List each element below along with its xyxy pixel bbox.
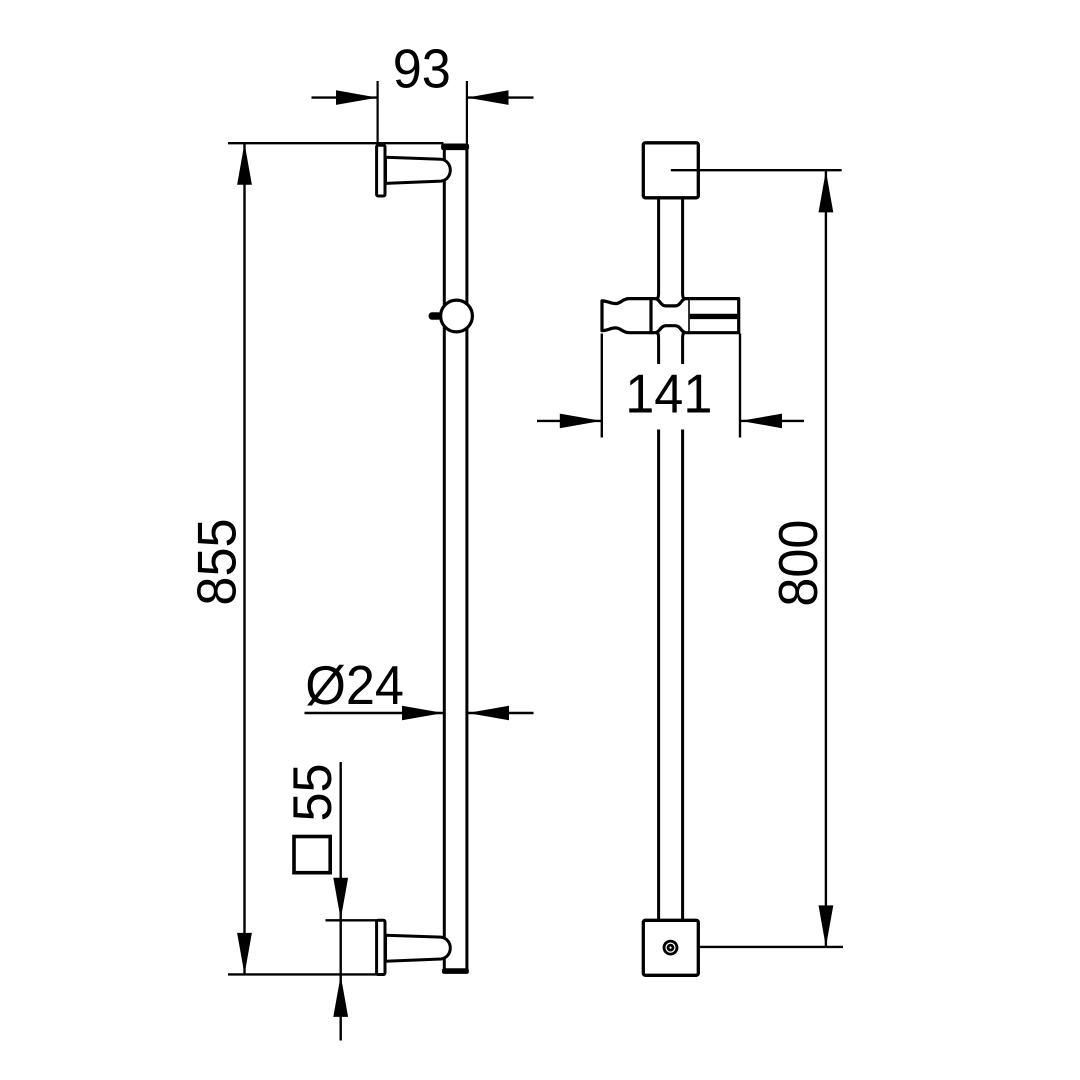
dimension 93 arrow left (336, 90, 378, 105)
screw dot (669, 947, 671, 949)
dimension 141 arrow right (741, 414, 783, 429)
dimension 141 extension left (601, 334, 603, 438)
dimension 855 arrow up (237, 143, 252, 185)
handle divider left (649, 297, 652, 334)
rail upper segment (656, 198, 685, 299)
dimension 93 line (312, 96, 534, 98)
handle center section (651, 299, 690, 333)
dimension 55 line (340, 762, 342, 1041)
escutcheon square bottom (643, 920, 698, 975)
dimension O24 line left (305, 712, 444, 714)
dimension 800 extension top (671, 169, 842, 171)
screw ring (666, 943, 675, 952)
dimension square symbol (294, 837, 330, 873)
dimension 855 extension bottom (228, 973, 385, 975)
handle divider right (688, 297, 691, 334)
bar left line (443, 146, 446, 971)
dimension 800 extension bottom (678, 946, 843, 948)
dimension 55 arrow up (333, 975, 348, 1017)
dimension 800 arrow up (819, 171, 834, 213)
screw head (663, 940, 679, 956)
wall plate bottom (377, 920, 385, 974)
dimension 141 extension right (739, 334, 741, 438)
svg-text:141: 141 (625, 363, 712, 425)
svg-text:55: 55 (282, 763, 344, 821)
handle right holder (690, 299, 739, 333)
handle slot (690, 314, 739, 319)
dimension 55 arrow down (333, 878, 348, 920)
dimension 855 extension top (228, 142, 444, 144)
rail below handle segment (656, 333, 685, 364)
escutcheon square top (643, 143, 698, 198)
top arm cone (386, 157, 451, 183)
dimension O24 arrow left (402, 706, 444, 721)
dimension O24 arrow right (468, 706, 510, 721)
svg-text:855: 855 (186, 518, 248, 605)
dimension 855 line (243, 144, 245, 974)
svg-text:800: 800 (768, 520, 830, 607)
dimension 141 arrow left (560, 414, 602, 429)
dimension O24 line right (468, 712, 534, 714)
dimension 141 line left (537, 420, 601, 422)
bottom arm cone (386, 935, 451, 961)
rail lower segment (659, 430, 683, 921)
svg-text:Ø24: Ø24 (305, 655, 404, 717)
dimension 855 arrow down (237, 933, 252, 975)
handle left grip (602, 299, 651, 333)
svg-text:93: 93 (393, 38, 451, 100)
dimension 800 line (825, 171, 827, 947)
bar bottom cap (442, 968, 469, 974)
dimension 141 line right (741, 420, 804, 422)
bar right line (465, 146, 468, 971)
dimension 93 extension lines (378, 81, 467, 146)
wall plate top (377, 145, 385, 196)
bar top cap (441, 144, 469, 151)
dimension 800 arrow down (819, 905, 834, 947)
dimension 93 arrow right (467, 90, 509, 105)
slider knob (441, 300, 473, 332)
slider pin (429, 312, 442, 319)
dimension 55 extension line (326, 919, 382, 921)
